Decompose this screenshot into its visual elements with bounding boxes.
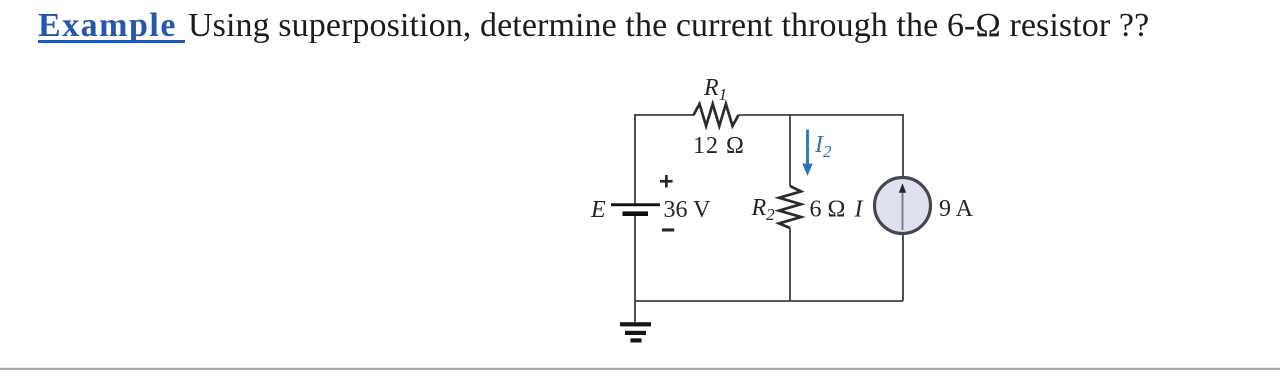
ground [620,322,651,342]
svg-text:12 Ω: 12 Ω [693,133,745,159]
svg-text:I2: I2 [814,132,832,161]
svg-text:9 A: 9 A [939,196,974,222]
svg-text:E: E [590,197,606,223]
svg-text:I: I [854,197,864,223]
svg-text:6 Ω: 6 Ω [810,197,846,223]
title text [38,8,1149,44]
svg-text:R2: R2 [751,195,776,224]
wire left vertical (top) [634,114,636,204]
battery E plate long [611,203,660,206]
wire right vertical (bottom) [902,234,904,301]
svg-text:R1: R1 [703,75,727,104]
wire middle vertical (top) [789,114,791,186]
svg-text:36 V: 36 V [664,197,712,223]
current arrow I2 [802,130,812,177]
wire middle vertical (bottom) [789,228,791,301]
wire right vertical (top) [902,114,904,177]
label + [660,175,673,188]
wire bottom horizontal [635,300,903,302]
resistor R2 [779,186,801,228]
wire top-right horizontal [739,114,904,116]
bottom divider line [0,368,1280,370]
current source arrow [899,183,906,230]
wire left vertical (bottom) [634,216,636,322]
current source circle [875,178,931,234]
underline of Example [38,40,185,43]
resistor R1 [694,104,739,126]
label minus [662,228,674,231]
battery E plate short [623,211,649,216]
wire top-left horizontal [635,114,694,116]
